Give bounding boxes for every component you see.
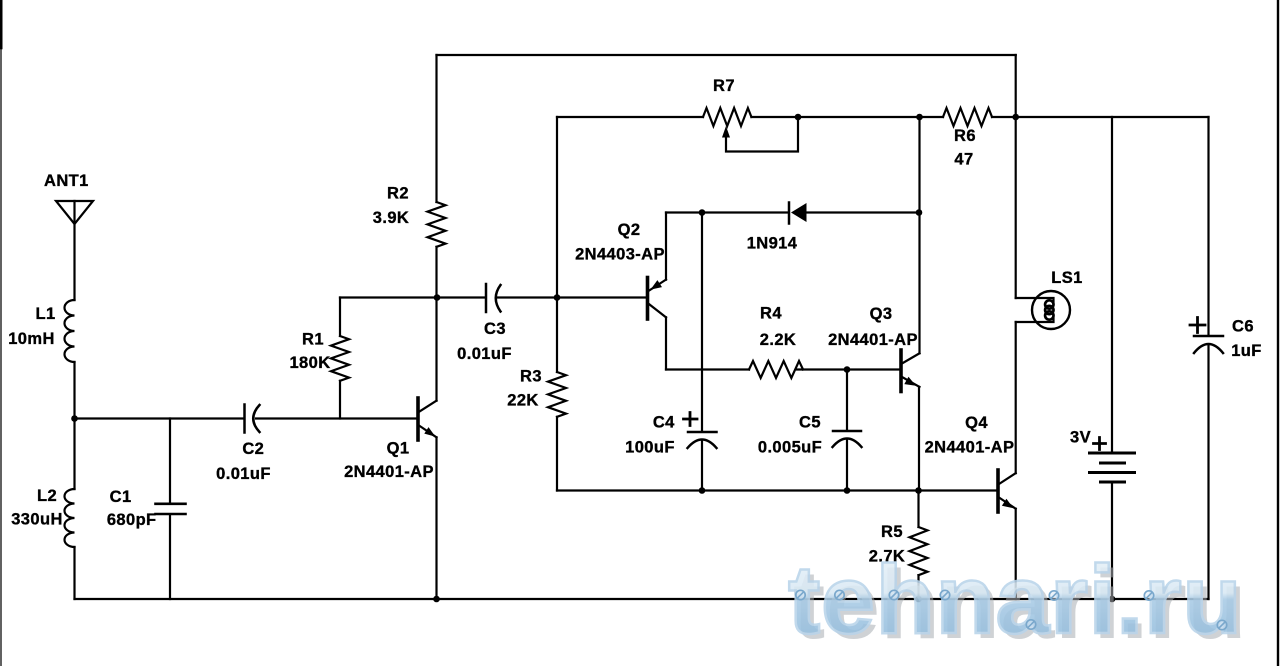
resistor R5: [910, 527, 928, 575]
wire C4 top lead: [701, 213, 703, 431]
transistor Q4 2N4401-AP: [998, 470, 1016, 512]
node supply rail Q3 collector junction: [916, 114, 923, 121]
wire node B to Q2 base: [557, 296, 646, 298]
svg-text:Q4: Q4: [965, 414, 988, 432]
capacitor C6: [1194, 336, 1223, 353]
wire C3 right plate to node B: [497, 296, 557, 298]
svg-text:R1: R1: [302, 331, 324, 349]
svg-text:R2: R2: [387, 185, 409, 203]
svg-text:2.2K: 2.2K: [760, 331, 796, 349]
diode 1N914: [789, 203, 807, 224]
node C5 emitter line junction: [844, 487, 851, 494]
svg-text:C3: C3: [484, 320, 506, 338]
left image border top dark segment: [0, 0, 3, 48]
svg-text:R3: R3: [520, 368, 542, 386]
wire battery top lead: [1111, 117, 1113, 452]
wire tank node to C2 left plate: [75, 417, 244, 419]
right image border line: [1277, 0, 1279, 666]
inductor L1: [65, 300, 75, 362]
battery plus sign: [1094, 438, 1106, 450]
svg-text:2N4401-AP: 2N4401-AP: [925, 439, 1015, 457]
node tank junction: [71, 415, 78, 422]
svg-text:tehnari.ru: tehnari.ru: [788, 545, 1242, 654]
svg-text:47: 47: [954, 151, 973, 169]
node R4 C5 junction: [844, 366, 851, 373]
wire supply junction down to LS1 top lead: [1015, 117, 1017, 298]
svg-text:0.01uF: 0.01uF: [457, 345, 512, 363]
node B C3 R3 Q2 junction: [554, 294, 561, 301]
potentiometer R7: [703, 108, 798, 152]
wire R1 top lead: [339, 298, 341, 337]
wire R3 bottom lead: [556, 417, 558, 491]
transistor Q3 2N4401-AP: [901, 350, 920, 392]
transistor Q2 2N4403-AP: [648, 278, 667, 320]
svg-text:ANT1: ANT1: [44, 172, 89, 190]
capacitor C6 plus sign: [1190, 318, 1205, 333]
wire Q2 collector down to R4 line: [665, 317, 667, 369]
wire diode line left: [666, 211, 788, 213]
svg-text:Q1: Q1: [387, 440, 410, 458]
wire L2 bottom to ground bus: [73, 547, 75, 599]
wire R3 top lead: [556, 298, 558, 373]
capacitor C2: [245, 405, 260, 433]
wire R1 bottom lead to Q1 base line: [339, 381, 341, 419]
resistor R4: [749, 361, 803, 378]
wire supply rail R7 to R6: [751, 116, 943, 118]
wire node A to C3 left plate: [437, 296, 485, 298]
svg-text:1N914: 1N914: [747, 235, 798, 253]
capacitor C4 plus sign: [684, 413, 698, 426]
wire C2 right plate to Q1 base: [256, 417, 417, 419]
svg-text:C6: C6: [1232, 318, 1254, 336]
wire L1 bottom to tank node: [73, 362, 75, 419]
svg-text:R5: R5: [881, 523, 903, 541]
transistor Q1 2N4401-AP: [418, 398, 437, 440]
node A Q1 collector junction: [434, 294, 441, 301]
speaker LS1: [1016, 291, 1070, 329]
wire C5 bottom lead: [846, 440, 848, 491]
wire R4 line left: [666, 368, 749, 370]
svg-text:C2: C2: [242, 440, 264, 458]
svg-text:0.01uF: 0.01uF: [216, 465, 271, 483]
wire C4 bottom lead: [701, 441, 703, 491]
wire Q2 emitter up to diode line: [665, 213, 667, 280]
svg-text:Q3: Q3: [870, 305, 893, 323]
node Q1 emitter ground junction: [433, 596, 440, 603]
wire Q3 emitter down to node C: [918, 387, 920, 491]
wire top bus: [437, 54, 1016, 56]
wire supply rail y117 left: [557, 116, 703, 118]
node battery ground junction: [1109, 596, 1116, 603]
wire C5 top lead: [846, 370, 848, 430]
svg-text:L2: L2: [37, 487, 57, 505]
resistor R6: [943, 108, 992, 126]
node supply rail top bus junction: [1012, 114, 1019, 121]
svg-text:680pF: 680pF: [107, 511, 157, 529]
resistor R2: [428, 202, 446, 247]
wire R2 bottom lead to node A: [435, 247, 437, 298]
svg-text:LS1: LS1: [1051, 269, 1082, 287]
wire Q1 emitter to ground bus: [435, 437, 437, 599]
svg-text:1uF: 1uF: [1231, 342, 1262, 360]
svg-text:R7: R7: [713, 77, 735, 95]
inductor L2: [65, 489, 75, 547]
battery BT1 3V: [1090, 453, 1135, 482]
wire Q4 emitter to ground bus: [1015, 509, 1017, 599]
svg-text:3.9K: 3.9K: [373, 209, 409, 227]
wire C6 top lead: [1207, 117, 1209, 335]
svg-text:0.005uF: 0.005uF: [758, 439, 822, 457]
resistor R3: [548, 372, 566, 417]
svg-text:C4: C4: [653, 414, 675, 432]
wire R1 top to node A: [340, 296, 436, 298]
wire Q1 collector to node A: [435, 298, 437, 401]
resistor R1: [331, 336, 349, 381]
wire R5 bottom lead to ground bus: [917, 575, 919, 599]
node R5 ground junction: [915, 596, 922, 603]
svg-text:L1: L1: [35, 305, 55, 323]
wire top bus right drop: [1015, 55, 1017, 117]
capacitor C1: [156, 504, 186, 514]
left image border line: [0, 0, 2, 666]
svg-text:2N4401-AP: 2N4401-AP: [344, 463, 434, 481]
svg-text:C5: C5: [799, 414, 821, 432]
wire C6 bottom lead: [1207, 346, 1209, 599]
svg-text:2N4401-AP: 2N4401-AP: [828, 331, 918, 349]
wire R5 top lead: [917, 491, 919, 528]
wire C1 bottom lead to ground bus: [169, 515, 171, 599]
svg-text:22K: 22K: [507, 392, 538, 410]
wire diode line right: [807, 211, 920, 213]
wire battery bottom lead to ground bus: [1111, 484, 1113, 600]
wire supply rail R6 to right corner: [992, 116, 1209, 118]
node C4 emitter line junction: [699, 487, 706, 494]
svg-text:R6: R6: [954, 127, 976, 145]
node C Q3 emitter R5 Q4 base junction: [915, 487, 922, 494]
svg-text:180K: 180K: [289, 354, 330, 372]
wire Q4 collector up to LS1 bottom lead: [1015, 322, 1017, 473]
capacitor C4: [688, 432, 717, 448]
wire C1 top lead: [169, 419, 171, 503]
wire Q3 collector up to supply rail: [918, 117, 920, 353]
wire emitter line y490: [557, 489, 996, 491]
svg-text:R4: R4: [760, 305, 782, 323]
wire ground bus: [75, 598, 1209, 600]
node diode line right junction: [916, 209, 923, 216]
wire R4 to Q3 base: [797, 368, 899, 370]
capacitor C5: [833, 431, 862, 447]
wire supply rail drop to node B: [556, 117, 558, 298]
node diode line C4 junction: [699, 209, 706, 216]
svg-text:Q2: Q2: [618, 221, 641, 239]
svg-text:C1: C1: [110, 488, 132, 506]
svg-text:100uF: 100uF: [625, 439, 675, 457]
svg-text:3V: 3V: [1070, 429, 1091, 447]
antenna ANT1: [56, 201, 93, 300]
watermark screw icons: [796, 590, 1227, 629]
svg-text:2N4403-AP: 2N4403-AP: [575, 246, 665, 264]
capacitor C3: [486, 284, 501, 312]
wire R2 top lead to top bus: [435, 55, 437, 202]
node R7 wiper junction: [795, 114, 802, 121]
wire tank node to L2 top: [73, 419, 75, 490]
svg-text:10mH: 10mH: [8, 330, 55, 348]
svg-text:330uH: 330uH: [11, 511, 63, 529]
